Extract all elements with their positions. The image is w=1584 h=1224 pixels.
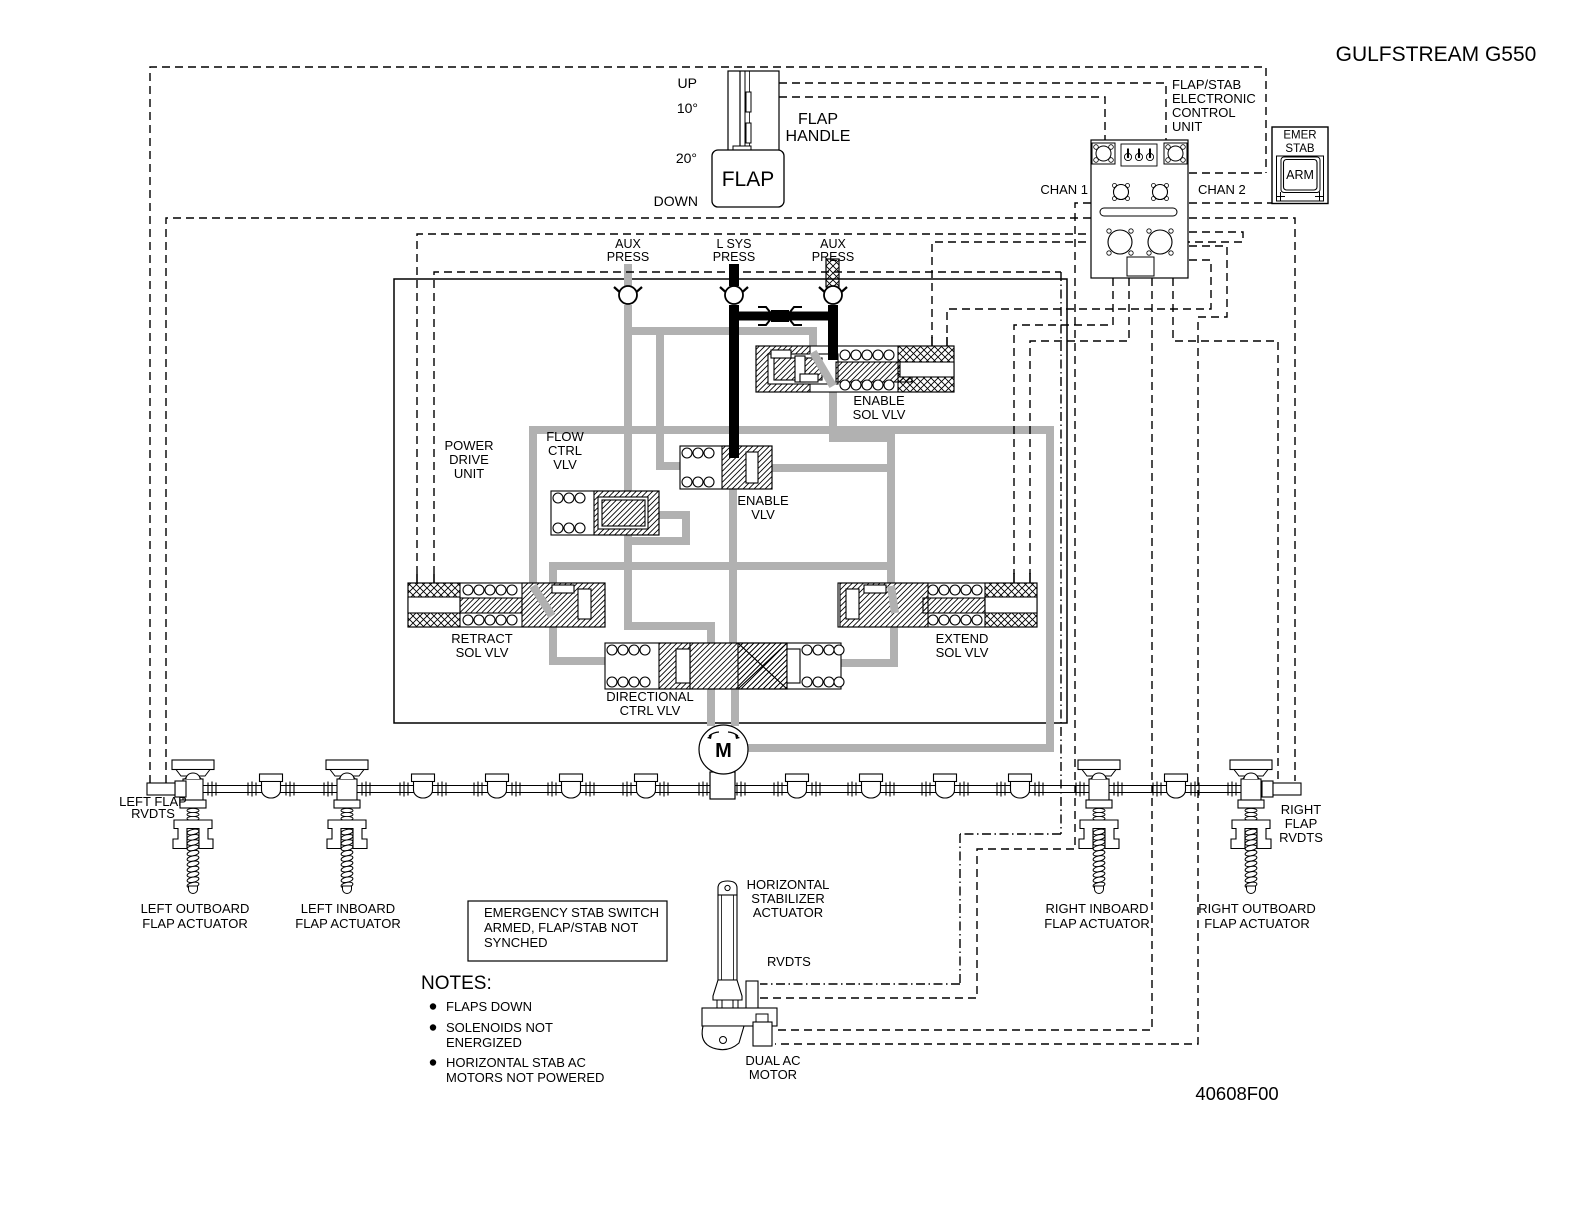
- svg-text:ACTUATOR: ACTUATOR: [753, 905, 823, 920]
- svg-text:FLAP/STAB: FLAP/STAB: [1172, 77, 1241, 92]
- wire dashed ECU to extend sol vlv a: [1014, 278, 1113, 574]
- svg-text:FLAPS DOWN: FLAPS DOWN: [446, 999, 532, 1014]
- shaft coupling ticks: [208, 782, 216, 797]
- svg-text:AUX: AUX: [615, 237, 641, 251]
- svg-text:CHAN 1: CHAN 1: [1040, 182, 1088, 197]
- wire dashed ECU to enable sol vlv a: [932, 232, 1243, 338]
- wire dashed ECU to extend sol vlv b: [1030, 278, 1129, 574]
- wire gray aux to enable sol vlv: [624, 327, 813, 355]
- svg-text:SOLENOIDS NOT: SOLENOIDS NOT: [446, 1020, 553, 1035]
- left outboard flap actuator: [172, 760, 214, 894]
- svg-text:LEFT INBOARD: LEFT INBOARD: [301, 901, 395, 916]
- solenoid pins retract sol vlv: [417, 574, 434, 584]
- valve ENABLE VLV: [680, 446, 772, 489]
- svg-text:M: M: [715, 740, 732, 762]
- svg-text:DOWN: DOWN: [654, 193, 698, 209]
- wire outer dashed loop (flap handle to ECU chan2 / left RVDT): [150, 67, 1266, 783]
- svg-text:L SYS: L SYS: [717, 237, 752, 251]
- right outboard flap actuator: [1230, 760, 1272, 894]
- svg-text:RVDTS: RVDTS: [131, 806, 175, 821]
- wire gray enable vlv bottom to directional: [729, 487, 737, 650]
- svg-text:10°: 10°: [677, 100, 698, 116]
- shaft gearbox couplers: [260, 774, 283, 798]
- check valve L SYS: [720, 286, 748, 304]
- wire gray to directional ctrl vlv left port: [549, 562, 891, 661]
- horizontal stabilizer actuator: [702, 881, 777, 1050]
- svg-text:EXTEND: EXTEND: [936, 631, 989, 646]
- svg-text:GULFSTREAM G550: GULFSTREAM G550: [1336, 43, 1537, 66]
- svg-text:FLAP ACTUATOR: FLAP ACTUATOR: [1204, 916, 1309, 931]
- svg-text:ELECTRONIC: ELECTRONIC: [1172, 91, 1256, 106]
- svg-text:AUX: AUX: [820, 237, 846, 251]
- wire gray left aux supply: [624, 264, 632, 287]
- wire gray flow ctrl vlv loop: [628, 511, 690, 541]
- svg-text:UP: UP: [678, 75, 697, 91]
- wire dashed ECU to right rvdt 2: [1173, 278, 1278, 781]
- valve RETRACT SOL VLV: [408, 583, 605, 627]
- svg-text:POWER: POWER: [444, 438, 493, 453]
- wire dashed flap handle to ECU b: [779, 97, 1105, 140]
- right flap RVDT: [1262, 781, 1301, 797]
- valve DIRECTIONAL CTRL VLV: [605, 643, 844, 689]
- wire black L SYS press line: [729, 264, 739, 286]
- svg-text:NOTES:: NOTES:: [421, 973, 492, 994]
- svg-text:FLOW: FLOW: [546, 429, 584, 444]
- wire black right aux line: [828, 305, 838, 358]
- svg-text:SOL VLV: SOL VLV: [936, 645, 989, 660]
- svg-text:DIRECTIONAL: DIRECTIONAL: [606, 689, 693, 704]
- wire gray pump loop long horizontal to motor: [529, 426, 1054, 748]
- right aux restrictor box: [826, 259, 839, 287]
- valve FLOW CTRL VLV: [551, 491, 659, 535]
- EMER STAB switch: [1272, 127, 1328, 204]
- svg-text:PRESS: PRESS: [713, 250, 755, 264]
- wire gray pump loop retract feed: [529, 426, 537, 588]
- svg-text:EMERGENCY STAB SWITCH: EMERGENCY STAB SWITCH: [484, 905, 659, 920]
- svg-text:UNIT: UNIT: [454, 466, 484, 481]
- svg-text:ENERGIZED: ENERGIZED: [446, 1035, 522, 1050]
- svg-text:UNIT: UNIT: [1172, 119, 1202, 134]
- svg-text:RETRACT: RETRACT: [451, 631, 512, 646]
- wire dashed retract sol vlv channel b / stab rvdt 1: [434, 272, 1061, 574]
- wire dashed retract sol vlv channel a: [417, 234, 1091, 574]
- svg-text:RVDTS: RVDTS: [767, 954, 811, 969]
- check valve right aux: [819, 286, 847, 304]
- svg-text:DUAL AC: DUAL AC: [745, 1053, 800, 1068]
- svg-text:EMER: EMER: [1283, 130, 1316, 142]
- wire gray enable vlv right port: [766, 464, 891, 472]
- svg-text:ENABLE: ENABLE: [737, 493, 789, 508]
- svg-text:CHAN 2: CHAN 2: [1198, 182, 1246, 197]
- svg-text:FLAP ACTUATOR: FLAP ACTUATOR: [142, 916, 247, 931]
- svg-text:ARMED, FLAP/STAB NOT: ARMED, FLAP/STAB NOT: [484, 920, 638, 935]
- svg-text:STABILIZER: STABILIZER: [751, 891, 824, 906]
- left inboard flap actuator: [326, 760, 368, 894]
- svg-text:SYNCHED: SYNCHED: [484, 935, 548, 950]
- svg-text:CTRL VLV: CTRL VLV: [620, 703, 681, 718]
- wire gray directional vlv to motor: [711, 685, 735, 726]
- FLAP placard: [712, 150, 784, 207]
- wire dashed ECU to dual ac motor 2: [775, 246, 1227, 1044]
- svg-text:MOTOR: MOTOR: [749, 1067, 797, 1082]
- valve ENABLE SOL VLV: [756, 346, 954, 392]
- torque shaft: [161, 786, 1286, 793]
- svg-text:RIGHT OUTBOARD: RIGHT OUTBOARD: [1198, 901, 1316, 916]
- svg-text:CTRL: CTRL: [548, 443, 582, 458]
- wire dashed ECU to dual ac motor 1: [775, 278, 1152, 1030]
- svg-text:SOL VLV: SOL VLV: [853, 407, 906, 422]
- wire dashed ECU to right rvdt 1: [1189, 218, 1295, 781]
- power drive unit box: [394, 279, 1067, 723]
- right inboard flap actuator: [1078, 760, 1120, 894]
- svg-text:RIGHT: RIGHT: [1281, 802, 1322, 817]
- svg-text:HORIZONTAL: HORIZONTAL: [747, 877, 830, 892]
- svg-text:PRESS: PRESS: [812, 250, 854, 264]
- svg-text:VLV: VLV: [553, 457, 577, 472]
- svg-text:ARM: ARM: [1286, 168, 1314, 182]
- svg-text:STAB: STAB: [1285, 143, 1315, 155]
- svg-text:40608F00: 40608F00: [1195, 1083, 1278, 1104]
- svg-text:HORIZONTAL STAB AC: HORIZONTAL STAB AC: [446, 1055, 586, 1070]
- solenoid pins enable sol vlv: [932, 337, 947, 347]
- flap handle: [728, 71, 779, 151]
- svg-text:RIGHT INBOARD: RIGHT INBOARD: [1045, 901, 1148, 916]
- wire dashed left rvdt to ECU: [166, 218, 1091, 783]
- svg-text:MOTORS NOT POWERED: MOTORS NOT POWERED: [446, 1070, 604, 1085]
- left flap RVDT: [147, 781, 186, 797]
- svg-text:VLV: VLV: [751, 507, 775, 522]
- svg-text:LEFT OUTBOARD: LEFT OUTBOARD: [141, 901, 250, 916]
- svg-text:ENABLE: ENABLE: [853, 393, 905, 408]
- svg-text:FLAP ACTUATOR: FLAP ACTUATOR: [295, 916, 400, 931]
- emergency stab note box: [468, 901, 667, 961]
- PDU motor gearbox: [710, 772, 735, 799]
- svg-text:PRESS: PRESS: [607, 250, 649, 264]
- svg-text:HANDLE: HANDLE: [786, 128, 851, 145]
- svg-text:FLAP: FLAP: [722, 168, 775, 191]
- wire black interconnect bar: [734, 312, 833, 321]
- wire gray branch to enable vlv left port: [656, 327, 684, 466]
- wire dashed flap handle to ECU a: [779, 83, 1166, 140]
- PDU motor M: [699, 725, 748, 774]
- svg-text:FLAP: FLAP: [798, 111, 838, 128]
- svg-text:SOL VLV: SOL VLV: [456, 645, 509, 660]
- svg-text:DRIVE: DRIVE: [449, 452, 489, 467]
- svg-text:FLAP ACTUATOR: FLAP ACTUATOR: [1044, 916, 1149, 931]
- check valve left aux: [614, 286, 642, 304]
- solenoid pins extend sol vlv: [1014, 573, 1030, 583]
- valve EXTEND SOL VLV: [838, 583, 1037, 627]
- wire gray extend vlv output to directional right port: [838, 611, 898, 663]
- wire dashed ECU to enable sol vlv b: [947, 260, 1211, 338]
- svg-text:RVDTS: RVDTS: [1279, 830, 1323, 845]
- flow restrictor symbols: [771, 310, 789, 322]
- svg-text:FLAP: FLAP: [1285, 816, 1318, 831]
- wire gray enable sol vlv output: [829, 390, 891, 587]
- svg-text:20°: 20°: [676, 150, 697, 166]
- svg-text:CONTROL: CONTROL: [1172, 105, 1236, 120]
- wire dashed chan1 to stab rvdt 2: [760, 203, 1091, 998]
- flap/stab electronic control unit box: [1091, 140, 1188, 278]
